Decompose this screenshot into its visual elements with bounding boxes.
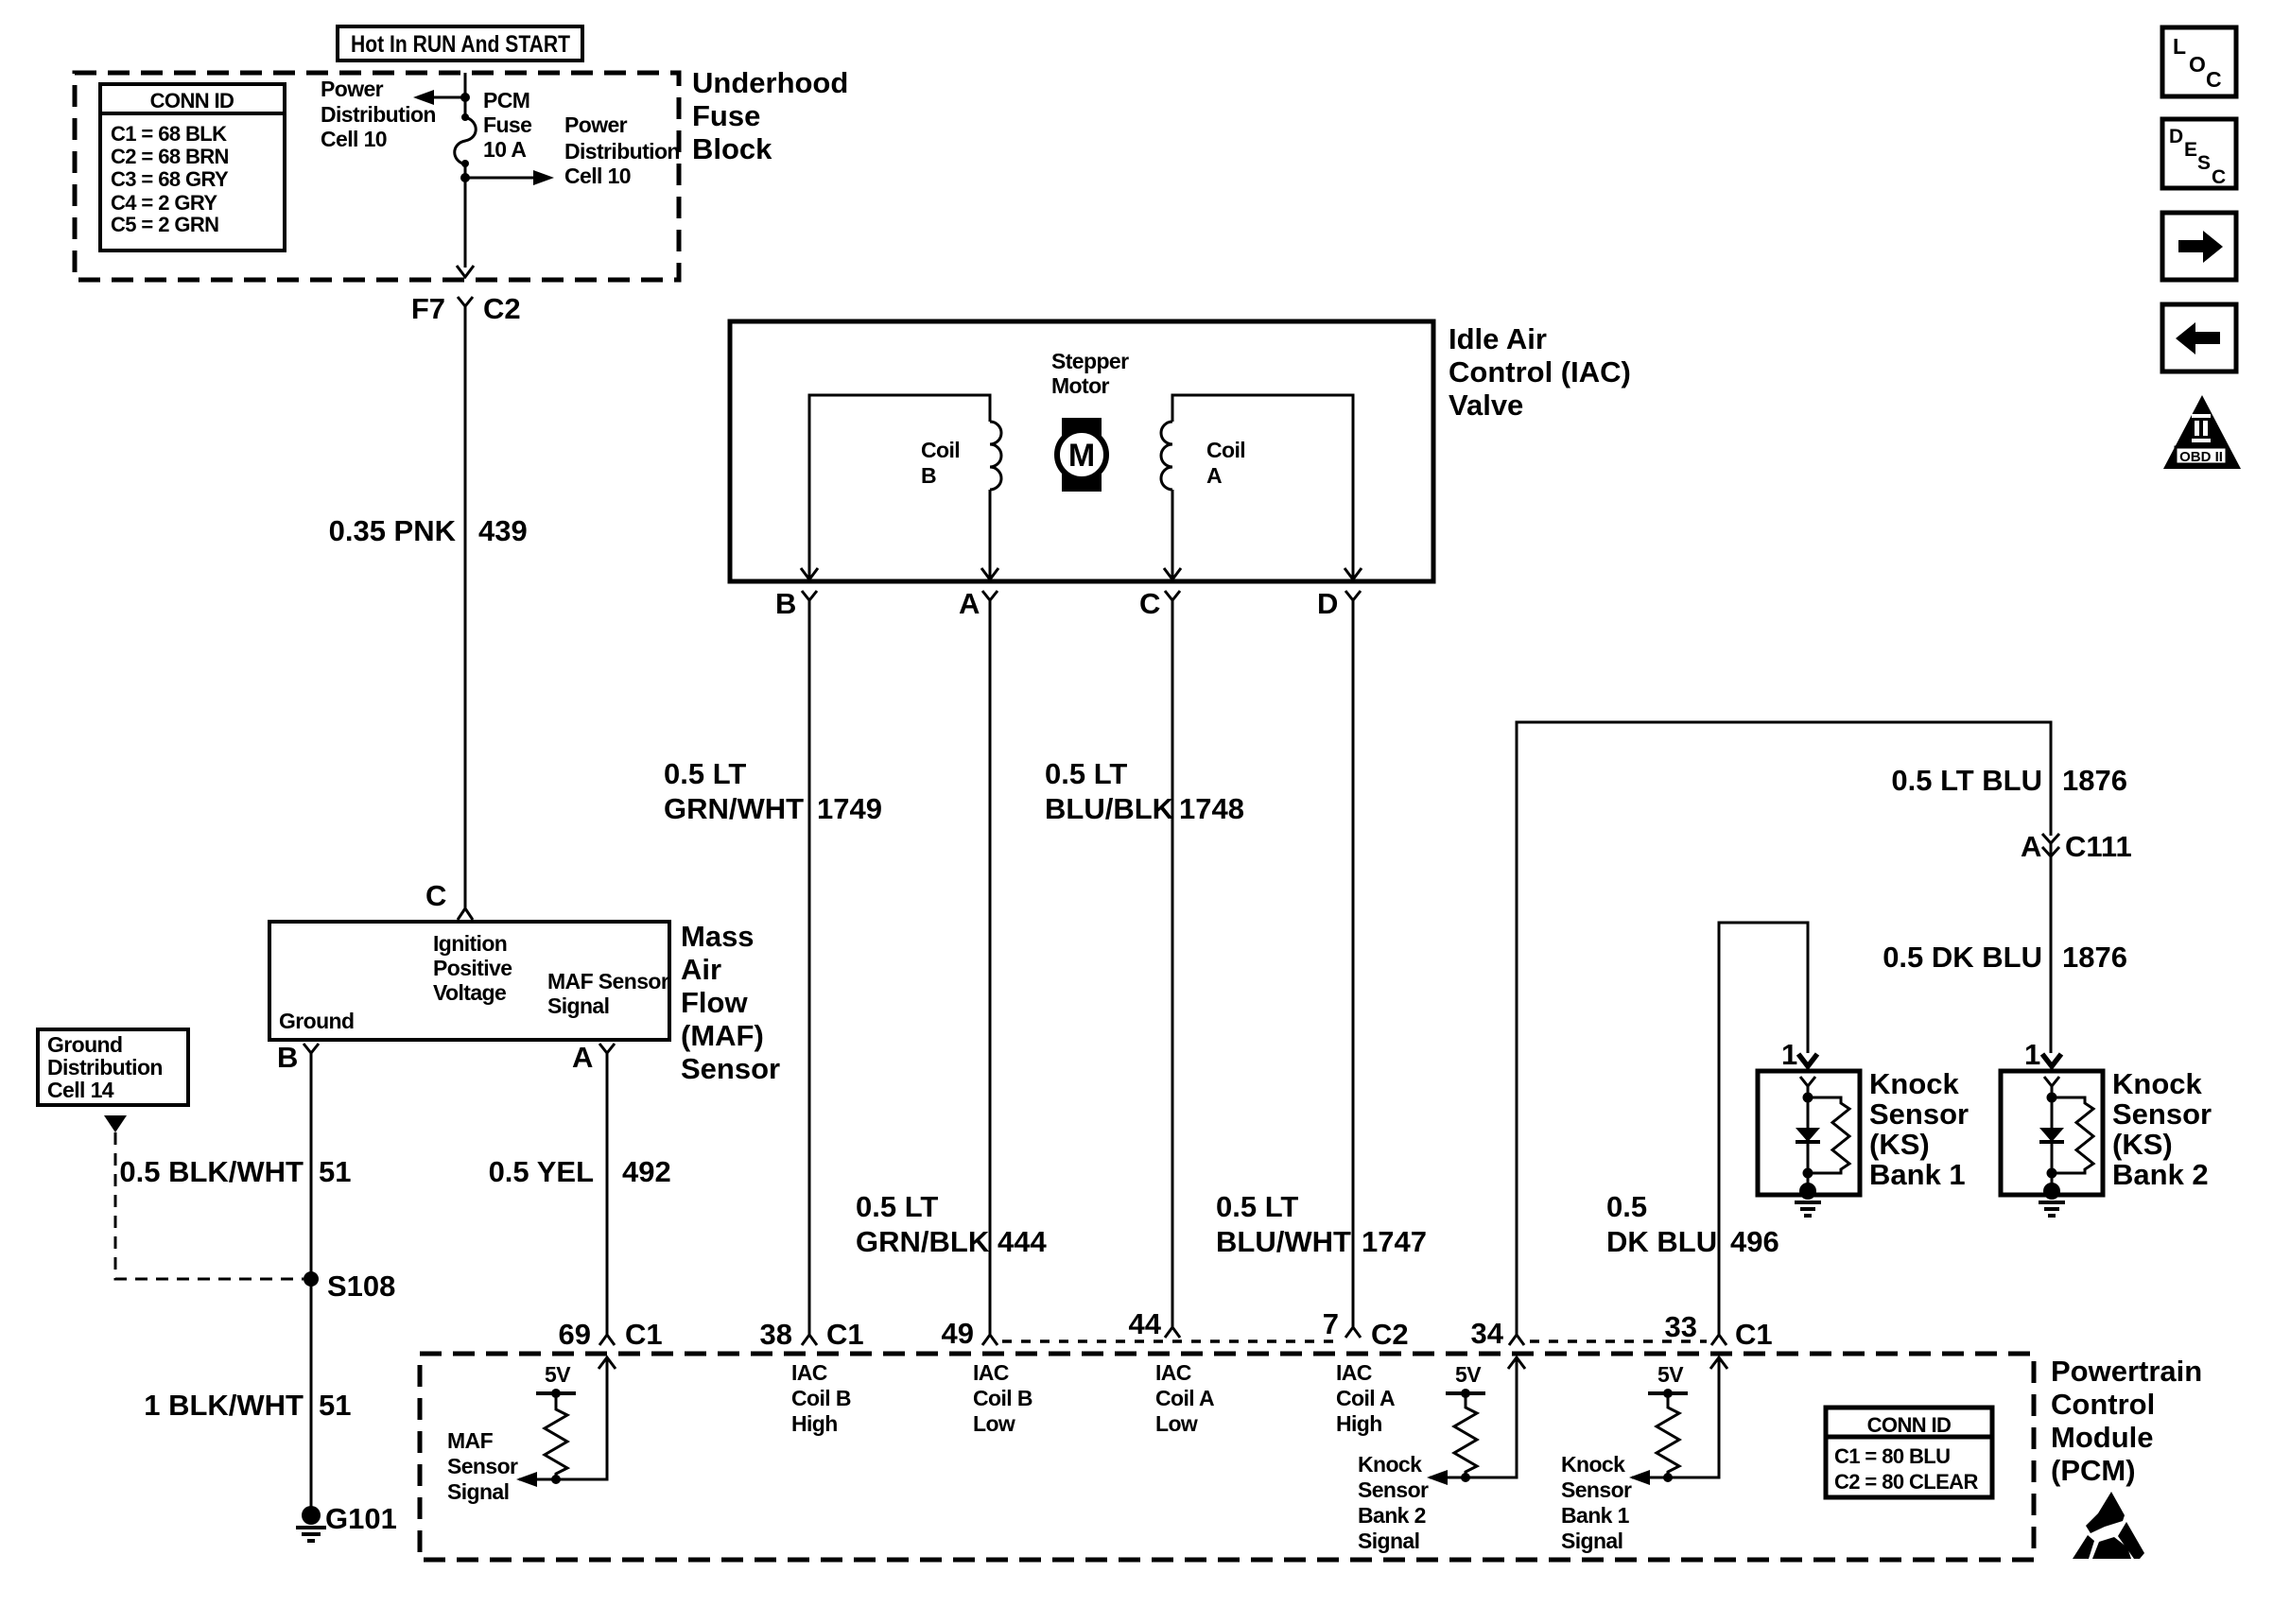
label: Knock Sensor (KS) Bank 2 xyxy=(2112,1067,2212,1191)
wire 1748: IAC pin C to PCM pin 44 xyxy=(1171,600,1174,1327)
pin 34 of PCM xyxy=(1471,1317,1524,1350)
wire 1876: 0.5 DK BLU C111 to knock sensor bank 2 xyxy=(2050,843,2053,1053)
connector Y inside KS1 xyxy=(1800,1077,1815,1086)
CONN ID table (PCM) xyxy=(1826,1408,1992,1497)
label: 0.5 DK BLU 1876 xyxy=(1883,941,2127,974)
svg-text:49: 49 xyxy=(942,1317,974,1350)
svg-text:(PCM): (PCM) xyxy=(2051,1454,2136,1487)
svg-text:33: 33 xyxy=(1665,1310,1697,1343)
svg-text:Coil A: Coil A xyxy=(1155,1386,1214,1410)
wire: knock sensor bank 2 lead inside PCM xyxy=(1430,1357,1517,1477)
node: KS1 bottom junction xyxy=(1803,1168,1813,1179)
svg-text:C5 = 2 GRN: C5 = 2 GRN xyxy=(111,213,218,236)
svg-text:Sensor: Sensor xyxy=(1358,1477,1429,1502)
arrow: chevron up at PCM pin 69 xyxy=(599,1357,616,1369)
wire 492: 0.5 YEL from MAF signal to PCM pin 69 xyxy=(606,1053,609,1335)
Underhood Fuse Block dashed box xyxy=(75,73,679,280)
label: 0.5 YEL 492 xyxy=(489,1155,671,1188)
wire: PCM pin 33 up and over to knock sensor bank 1 xyxy=(1719,923,1808,1335)
svg-text:GRN/WHT: GRN/WHT xyxy=(664,792,804,825)
resistor KS2 xyxy=(2052,1097,2093,1173)
label: Underhood Fuse Block xyxy=(692,66,848,165)
Ground Distribution Cell 14 box xyxy=(38,1029,188,1105)
svg-text:Module: Module xyxy=(2051,1421,2154,1454)
svg-text:Power: Power xyxy=(321,77,384,101)
icon: right arrow box xyxy=(2162,213,2236,280)
svg-text:492: 492 xyxy=(622,1155,671,1188)
label: Knock Sensor (KS) Bank 1 xyxy=(1869,1067,1969,1191)
svg-text:Ignition: Ignition xyxy=(433,931,507,956)
svg-text:Power: Power xyxy=(564,112,628,137)
svg-text:C: C xyxy=(1139,587,1160,620)
wire: coil A top feed xyxy=(1172,395,1353,579)
label: 0.5 LT GRN/WHT 1749 xyxy=(664,757,882,825)
svg-text:Flow: Flow xyxy=(681,986,748,1019)
svg-text:0.5: 0.5 xyxy=(1606,1190,1647,1223)
connector C at MAF sensor xyxy=(425,879,473,920)
ground G101 xyxy=(296,1502,397,1541)
svg-text:0.5 LT: 0.5 LT xyxy=(1045,757,1127,790)
wire 51: 1 BLK/WHT from S108 to G101 xyxy=(310,1279,313,1512)
pin C of IAC valve xyxy=(1139,587,1180,620)
svg-text:Signal: Signal xyxy=(547,993,609,1018)
node: junction to Power Distribution (right) xyxy=(460,173,470,182)
svg-text:(KS): (KS) xyxy=(2112,1128,2173,1161)
svg-text:E: E xyxy=(2184,139,2197,161)
svg-text:C1 = 80 BLU: C1 = 80 BLU xyxy=(1834,1444,1950,1468)
arrow: chevron up at PCM pin 33 xyxy=(1710,1357,1727,1369)
label: IAC Coil A Low xyxy=(1155,1360,1214,1436)
svg-text:OBD II: OBD II xyxy=(2179,449,2223,465)
svg-text:IAC: IAC xyxy=(791,1360,827,1385)
connector F7 / C2 xyxy=(411,292,521,326)
label: MAF Sensor Signal xyxy=(447,1428,518,1504)
svg-text:A: A xyxy=(1206,463,1222,488)
svg-text:7: 7 xyxy=(1323,1307,1339,1340)
label box: Hot In RUN And START xyxy=(338,26,582,60)
pin A of MAF sensor xyxy=(572,1041,615,1074)
resistor: MAF 5V pull-up xyxy=(536,1362,576,1484)
arrow: chevron up at PCM pin 34 xyxy=(1508,1357,1525,1369)
arrow: chevron down at IAC pin C xyxy=(1164,568,1181,579)
Powertrain Control Module dashed box xyxy=(420,1354,2034,1560)
label: Knock Sensor Bank 2 Signal xyxy=(1358,1452,1429,1553)
wire: coil B top feed xyxy=(809,395,990,579)
svg-text:5V: 5V xyxy=(1455,1362,1482,1387)
svg-text:Coil: Coil xyxy=(921,438,960,462)
svg-text:BLU/WHT: BLU/WHT xyxy=(1216,1225,1351,1258)
node: KS2 bottom junction xyxy=(2047,1168,2057,1179)
svg-text:Bank 1: Bank 1 xyxy=(1561,1503,1630,1528)
connector Y inside KS2 xyxy=(2044,1077,2059,1086)
svg-text:Voltage: Voltage xyxy=(433,980,506,1005)
resistor KS1 xyxy=(1808,1097,1849,1173)
svg-text:Idle Air: Idle Air xyxy=(1449,322,1547,355)
IAC valve box xyxy=(730,321,1433,581)
svg-text:Distribution: Distribution xyxy=(564,139,680,164)
svg-text:IAC: IAC xyxy=(973,1360,1009,1385)
svg-text:1876: 1876 xyxy=(2062,941,2127,974)
svg-text:10 A: 10 A xyxy=(483,137,526,162)
svg-text:38: 38 xyxy=(760,1318,792,1351)
svg-text:CONN ID: CONN ID xyxy=(1867,1413,1952,1437)
svg-text:5V: 5V xyxy=(1657,1362,1684,1387)
pin 38 C1 of PCM xyxy=(760,1318,864,1351)
svg-text:DK BLU: DK BLU xyxy=(1606,1225,1717,1258)
coil B (inductor) xyxy=(990,422,1001,490)
wire: KS1 to case ground xyxy=(1807,1173,1810,1189)
wire: feed from Hot In RUN down into fuse block xyxy=(464,73,467,115)
svg-text:C1: C1 xyxy=(1735,1318,1773,1351)
svg-text:Knock: Knock xyxy=(1358,1452,1422,1477)
svg-text:5V: 5V xyxy=(545,1362,571,1387)
svg-text:Coil A: Coil A xyxy=(1336,1386,1395,1410)
svg-text:M: M xyxy=(1068,438,1095,474)
svg-text:(MAF): (MAF) xyxy=(681,1019,764,1052)
svg-text:439: 439 xyxy=(478,514,528,547)
label: 0.5 DK BLU 496 xyxy=(1606,1190,1779,1258)
MAF sensor box xyxy=(269,922,669,1040)
svg-text:1 BLK/WHT: 1 BLK/WHT xyxy=(144,1389,304,1422)
motor M symbol xyxy=(1057,418,1106,492)
wire: KS2 to case ground xyxy=(2051,1173,2054,1189)
arrow: solid left arrowhead KS bank 1 signal xyxy=(1629,1470,1650,1485)
svg-text:0.35 PNK: 0.35 PNK xyxy=(329,514,457,547)
icon: DESC box xyxy=(2162,119,2236,188)
label: 0.5 BLK/WHT 51 xyxy=(119,1155,351,1188)
label: Power Distribution Cell 10 (left) xyxy=(321,77,436,151)
svg-text:Signal: Signal xyxy=(1358,1529,1419,1553)
node: KS2 top junction xyxy=(2047,1093,2057,1103)
svg-text:B: B xyxy=(921,463,936,488)
svg-text:Knock: Knock xyxy=(1869,1067,1960,1100)
wire: branch left to Power Distribution Cell 10 xyxy=(430,96,465,99)
wire: connector line pins 49-44-7 xyxy=(1002,1339,1341,1342)
arrow: chevron down at fuse block exit xyxy=(457,266,474,277)
svg-text:Sensor: Sensor xyxy=(2112,1097,2212,1131)
wire: coil A bottom lead xyxy=(1171,490,1174,579)
svg-text:0.5 LT: 0.5 LT xyxy=(664,757,746,790)
pin 44 of PCM xyxy=(1129,1307,1180,1340)
arrow: left solid arrowhead xyxy=(413,90,434,105)
svg-text:C2 = 80 CLEAR: C2 = 80 CLEAR xyxy=(1834,1470,1978,1494)
pin 69 C1 of PCM xyxy=(559,1318,663,1351)
svg-text:496: 496 xyxy=(1730,1225,1779,1258)
resistor: KS bank 1 5V pull-up xyxy=(1648,1362,1688,1482)
wire: knock sensor bank 1 lead inside PCM xyxy=(1632,1357,1719,1477)
label: 0.5 LT GRN/BLK 444 xyxy=(856,1190,1047,1258)
node: KS1 top junction xyxy=(1803,1093,1813,1103)
label: Power Distribution Cell 10 (right) xyxy=(564,112,680,188)
svg-text:444: 444 xyxy=(998,1225,1047,1258)
svg-text:Motor: Motor xyxy=(1051,373,1110,398)
label: 1 BLK/WHT 51 xyxy=(144,1389,351,1422)
arrow: solid triangle below ground distribution box xyxy=(104,1115,127,1132)
svg-text:Block: Block xyxy=(692,132,772,165)
svg-text:Cell 10: Cell 10 xyxy=(564,164,631,188)
fuse: PCM Fuse 10 A xyxy=(455,113,477,167)
svg-text:1747: 1747 xyxy=(1362,1225,1427,1258)
svg-text:Control (IAC): Control (IAC) xyxy=(1449,355,1631,389)
svg-text:0.5 YEL: 0.5 YEL xyxy=(489,1155,594,1188)
svg-text:Bank 2: Bank 2 xyxy=(2112,1158,2209,1191)
icon: left arrow box xyxy=(2162,304,2236,371)
svg-text:C1: C1 xyxy=(625,1318,663,1351)
svg-text:Cell 10: Cell 10 xyxy=(321,127,387,151)
wire: fuse output down xyxy=(464,164,467,268)
svg-text:B: B xyxy=(277,1041,298,1074)
knock sensor bank 2 box xyxy=(2001,1071,2103,1195)
svg-text:Signal: Signal xyxy=(1561,1529,1622,1553)
svg-text:Coil: Coil xyxy=(1206,438,1245,462)
label: Coil B xyxy=(921,438,960,488)
svg-text:51: 51 xyxy=(319,1155,351,1188)
svg-text:0.5 DK BLU: 0.5 DK BLU xyxy=(1883,941,2042,974)
svg-text:D: D xyxy=(1317,587,1338,620)
arrow: chevron down at IAC pin A xyxy=(981,568,998,579)
label: IAC Coil A High xyxy=(1336,1360,1395,1436)
svg-text:C1: C1 xyxy=(826,1318,864,1351)
wire 51: 0.5 BLK/WHT from MAF ground to S108 xyxy=(310,1053,313,1279)
wire: connector line pins 34-33 xyxy=(1530,1339,1707,1342)
svg-text:(KS): (KS) xyxy=(1869,1128,1930,1161)
resistor: KS bank 2 5V pull-up xyxy=(1446,1362,1485,1482)
svg-text:B: B xyxy=(775,587,796,620)
wire 1747: IAC pin D to PCM pin 7 xyxy=(1352,600,1355,1327)
pin 33 C1 of PCM xyxy=(1665,1310,1773,1351)
svg-text:Stepper: Stepper xyxy=(1051,349,1129,373)
arrow: chevron down at IAC pin B xyxy=(801,568,818,579)
svg-text:Fuse: Fuse xyxy=(483,112,531,137)
svg-text:C111: C111 xyxy=(2065,830,2132,863)
pin B of IAC valve xyxy=(775,587,817,620)
svg-text:C3 = 68 GRY: C3 = 68 GRY xyxy=(111,167,229,191)
pin B of MAF sensor xyxy=(277,1041,319,1074)
svg-text:MAF Sensor: MAF Sensor xyxy=(547,969,669,993)
svg-text:0.5 LT: 0.5 LT xyxy=(1216,1190,1298,1223)
label: 0.5 LT BLU/BLK 1748 xyxy=(1045,757,1244,825)
wire: KS2 internal top xyxy=(2051,1086,2054,1173)
diode KS1 xyxy=(1796,1128,1820,1142)
svg-text:1876: 1876 xyxy=(2062,764,2127,797)
svg-text:G101: G101 xyxy=(325,1502,397,1535)
svg-text:C4 = 2 GRY: C4 = 2 GRY xyxy=(111,191,217,215)
label: Coil A xyxy=(1206,438,1245,488)
label: Knock Sensor Bank 1 Signal xyxy=(1561,1452,1632,1553)
svg-text:0.5 LT BLU: 0.5 LT BLU xyxy=(1891,764,2042,797)
icon: OBD II triangle xyxy=(2163,395,2241,469)
svg-text:GRN/BLK: GRN/BLK xyxy=(856,1225,990,1258)
svg-text:BLU/BLK: BLU/BLK xyxy=(1045,792,1174,825)
svg-text:Powertrain: Powertrain xyxy=(2051,1355,2202,1388)
svg-text:C2: C2 xyxy=(483,292,521,325)
wire 439: 0.35 PNK from fuse block to MAF sensor xyxy=(464,326,467,908)
ground at KS1 case xyxy=(1795,1183,1821,1216)
svg-text:1: 1 xyxy=(2024,1038,2040,1071)
label: 0.35 PNK 439 xyxy=(329,514,528,547)
svg-text:Sensor: Sensor xyxy=(447,1454,518,1478)
wire: MAF signal lead inside PCM xyxy=(519,1357,607,1479)
label: PCM Fuse 10 A xyxy=(483,88,531,162)
svg-text:Knock: Knock xyxy=(1561,1452,1625,1477)
svg-text:0.5 BLK/WHT: 0.5 BLK/WHT xyxy=(119,1155,304,1188)
svg-text:Underhood: Underhood xyxy=(692,66,848,99)
label: Powertrain Control Module (PCM) xyxy=(2051,1355,2202,1487)
svg-text:51: 51 xyxy=(319,1389,351,1422)
arrow: right solid arrowhead xyxy=(533,170,554,185)
svg-text:Distribution: Distribution xyxy=(321,102,436,127)
label: IAC Coil B High xyxy=(791,1360,851,1436)
arrow: solid left arrowhead KS bank 2 signal xyxy=(1427,1470,1448,1485)
svg-text:1: 1 xyxy=(1781,1038,1797,1071)
pin A of IAC valve xyxy=(959,587,998,620)
svg-text:Fuse: Fuse xyxy=(692,99,760,132)
svg-text:Sensor: Sensor xyxy=(1561,1477,1632,1502)
node: junction to Power Distribution (left) xyxy=(460,93,470,102)
svg-text:IAC: IAC xyxy=(1336,1360,1372,1385)
label: Mass Air Flow (MAF) Sensor xyxy=(681,920,780,1085)
svg-text:A: A xyxy=(572,1041,593,1074)
svg-text:High: High xyxy=(791,1411,838,1436)
svg-text:69: 69 xyxy=(559,1318,591,1351)
knock sensor bank 1 box xyxy=(1758,1071,1860,1195)
svg-text:PCM: PCM xyxy=(483,88,529,112)
svg-text:Control: Control xyxy=(2051,1388,2155,1421)
svg-text:Low: Low xyxy=(1155,1411,1198,1436)
svg-text:C2 = 68 BRN: C2 = 68 BRN xyxy=(111,145,229,168)
label: IAC Coil B Low xyxy=(973,1360,1032,1436)
svg-text:Air: Air xyxy=(681,953,721,986)
svg-text:A: A xyxy=(959,587,980,620)
pin 7 C2 of PCM xyxy=(1323,1307,1409,1351)
svg-text:Distribution: Distribution xyxy=(47,1055,163,1080)
wire 1749: IAC pin B to PCM pin 38 xyxy=(808,600,811,1335)
label: Stepper Motor xyxy=(1051,349,1129,398)
svg-text:0.5 LT: 0.5 LT xyxy=(856,1190,938,1223)
svg-text:C: C xyxy=(2212,166,2226,188)
svg-text:1749: 1749 xyxy=(817,792,882,825)
svg-text:Coil B: Coil B xyxy=(973,1386,1032,1410)
svg-text:Sensor: Sensor xyxy=(681,1052,780,1085)
pin 1 of knock sensor bank 2 xyxy=(2024,1038,2061,1071)
svg-text:Bank 1: Bank 1 xyxy=(1869,1158,1966,1191)
svg-text:IAC: IAC xyxy=(1155,1360,1191,1385)
svg-text:MAF: MAF xyxy=(447,1428,494,1453)
pin 1 of knock sensor bank 1 xyxy=(1781,1038,1817,1071)
wire: coil B bottom lead xyxy=(989,490,992,579)
arrow: solid left arrowhead MAF signal xyxy=(516,1472,537,1487)
wire: branch right to Power Distribution Cell 10 xyxy=(465,177,535,180)
wire: KS1 internal top xyxy=(1807,1086,1810,1173)
wire: PCM pin 34 up and over to knock sensor bank 2 xyxy=(1517,722,2051,1335)
ground at KS2 case xyxy=(2039,1183,2065,1216)
svg-text:Knock: Knock xyxy=(2112,1067,2203,1100)
svg-text:Cell 14: Cell 14 xyxy=(47,1078,114,1102)
svg-text:Ground: Ground xyxy=(279,1009,354,1033)
svg-text:C: C xyxy=(425,879,446,912)
label: 0.5 LT BLU/WHT 1747 xyxy=(1216,1190,1427,1258)
label: Idle Air Control (IAC) Valve xyxy=(1449,322,1631,422)
wire 444: IAC pin A to PCM pin 49 xyxy=(989,600,992,1335)
svg-text:CONN ID: CONN ID xyxy=(150,89,234,112)
svg-text:D: D xyxy=(2169,126,2183,147)
svg-text:C1 = 68 BLK: C1 = 68 BLK xyxy=(111,122,227,146)
svg-text:1748: 1748 xyxy=(1179,792,1244,825)
svg-text:Valve: Valve xyxy=(1449,389,1523,422)
svg-text:F7: F7 xyxy=(411,292,445,325)
wire: dashed ground distribution wire to S108 xyxy=(115,1132,304,1279)
svg-text:S: S xyxy=(2197,152,2211,174)
svg-text:C2: C2 xyxy=(1371,1318,1409,1351)
svg-text:34: 34 xyxy=(1471,1317,1504,1350)
svg-text:Mass: Mass xyxy=(681,920,755,953)
svg-text:S108: S108 xyxy=(327,1270,395,1303)
svg-text:C: C xyxy=(2206,67,2222,92)
coil A (inductor) xyxy=(1161,422,1172,490)
ESD sensitive symbol xyxy=(2073,1492,2144,1559)
svg-text:L: L xyxy=(2173,34,2186,59)
svg-text:Coil B: Coil B xyxy=(791,1386,851,1410)
svg-text:Sensor: Sensor xyxy=(1869,1097,1969,1131)
svg-text:Positive: Positive xyxy=(433,956,512,980)
svg-text:Hot In RUN And START: Hot In RUN And START xyxy=(351,31,570,58)
svg-text:Ground: Ground xyxy=(47,1032,122,1057)
icon: LOC box xyxy=(2162,27,2236,96)
arrow: chevron down at IAC pin D xyxy=(1345,568,1362,579)
svg-text:Low: Low xyxy=(973,1411,1015,1436)
svg-text:Bank 2: Bank 2 xyxy=(1358,1503,1426,1528)
node S108 xyxy=(304,1270,395,1303)
label: 0.5 LT BLU 1876 xyxy=(1891,764,2127,797)
pin 49 of PCM xyxy=(942,1317,998,1350)
connector A / C111 xyxy=(2021,830,2132,863)
svg-text:O: O xyxy=(2189,52,2206,77)
pin D of IAC valve xyxy=(1317,587,1361,620)
svg-text:Signal: Signal xyxy=(447,1479,509,1504)
svg-text:High: High xyxy=(1336,1411,1382,1436)
diode KS2 xyxy=(2039,1128,2064,1142)
svg-text:A: A xyxy=(2021,830,2041,863)
CONN ID table (fuse block) xyxy=(100,84,285,251)
svg-text:44: 44 xyxy=(1129,1307,1162,1340)
